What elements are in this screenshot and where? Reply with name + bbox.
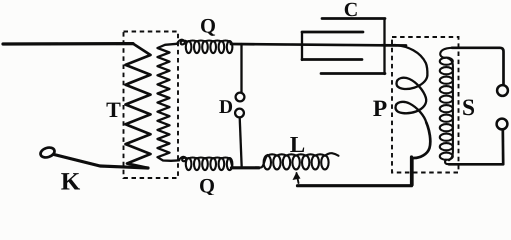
transformer T secondary zigzag [158, 44, 180, 161]
label Q top [201, 19, 215, 36]
coil Q bottom entry curl [179, 157, 187, 161]
spark ball lower [497, 119, 508, 130]
label T [107, 103, 121, 117]
dashed box around P and S [392, 37, 459, 173]
coil Q top connecting arcs [189, 39, 230, 42]
dashed box around transformer T [124, 32, 179, 179]
tap arrow shaft at L [297, 173, 299, 183]
primary P bottom tail [412, 123, 430, 186]
wire top-left feed [3, 42, 133, 46]
label L [290, 137, 304, 152]
transformer T primary zigzag [126, 44, 151, 168]
key K knob [39, 146, 56, 159]
tap arrow head [293, 172, 301, 180]
wire bottom rail Q to L [232, 166, 260, 169]
coil Q bottom rings [186, 158, 192, 170]
label D [219, 100, 232, 113]
coil Q bottom connecting arcs [189, 156, 230, 159]
capacitor C bottom plate [321, 72, 385, 75]
coil L connecting arcs [267, 154, 325, 155]
spark ball upper [497, 85, 508, 96]
label K [61, 173, 80, 189]
capacitor C plate 2 [302, 31, 363, 34]
wire bottom return to P [298, 157, 412, 186]
node junction for D branch [240, 44, 242, 92]
label P [373, 101, 386, 116]
capacitor C right bus [383, 19, 385, 75]
key K lever [54, 155, 148, 169]
coil Q top rings [186, 41, 192, 53]
wire S top to upper spark ball [452, 48, 504, 85]
coil Q top exit [230, 41, 231, 44]
secondary coil S rings [440, 58, 453, 65]
secondary coil S right weave [447, 58, 453, 160]
secondary coil S bottom exit [445, 160, 449, 164]
detector D lower contact [235, 109, 244, 118]
capacitor C top plate [322, 17, 385, 20]
wire lower ball to S bottom [449, 130, 503, 165]
coil Q bottom exit [230, 158, 233, 167]
primary P loop 1 [397, 76, 428, 98]
wire top main to capacitor and P [231, 44, 406, 46]
coil Q top entry curl [177, 40, 187, 45]
secondary coil S top hook [440, 48, 452, 58]
label S [463, 99, 474, 115]
primary P loop 2 [396, 98, 427, 123]
coil L exit tail [325, 153, 339, 156]
primary P top swoop [385, 45, 427, 76]
wire D to bottom rail [240, 118, 242, 168]
detector D upper contact [236, 93, 245, 102]
coil L rings [264, 155, 271, 169]
label Q bottom [200, 179, 214, 196]
label C [345, 3, 357, 16]
capacitor C plate 3 [302, 58, 362, 61]
coil L entry [256, 155, 268, 168]
capacitor C left bus [301, 32, 303, 60]
